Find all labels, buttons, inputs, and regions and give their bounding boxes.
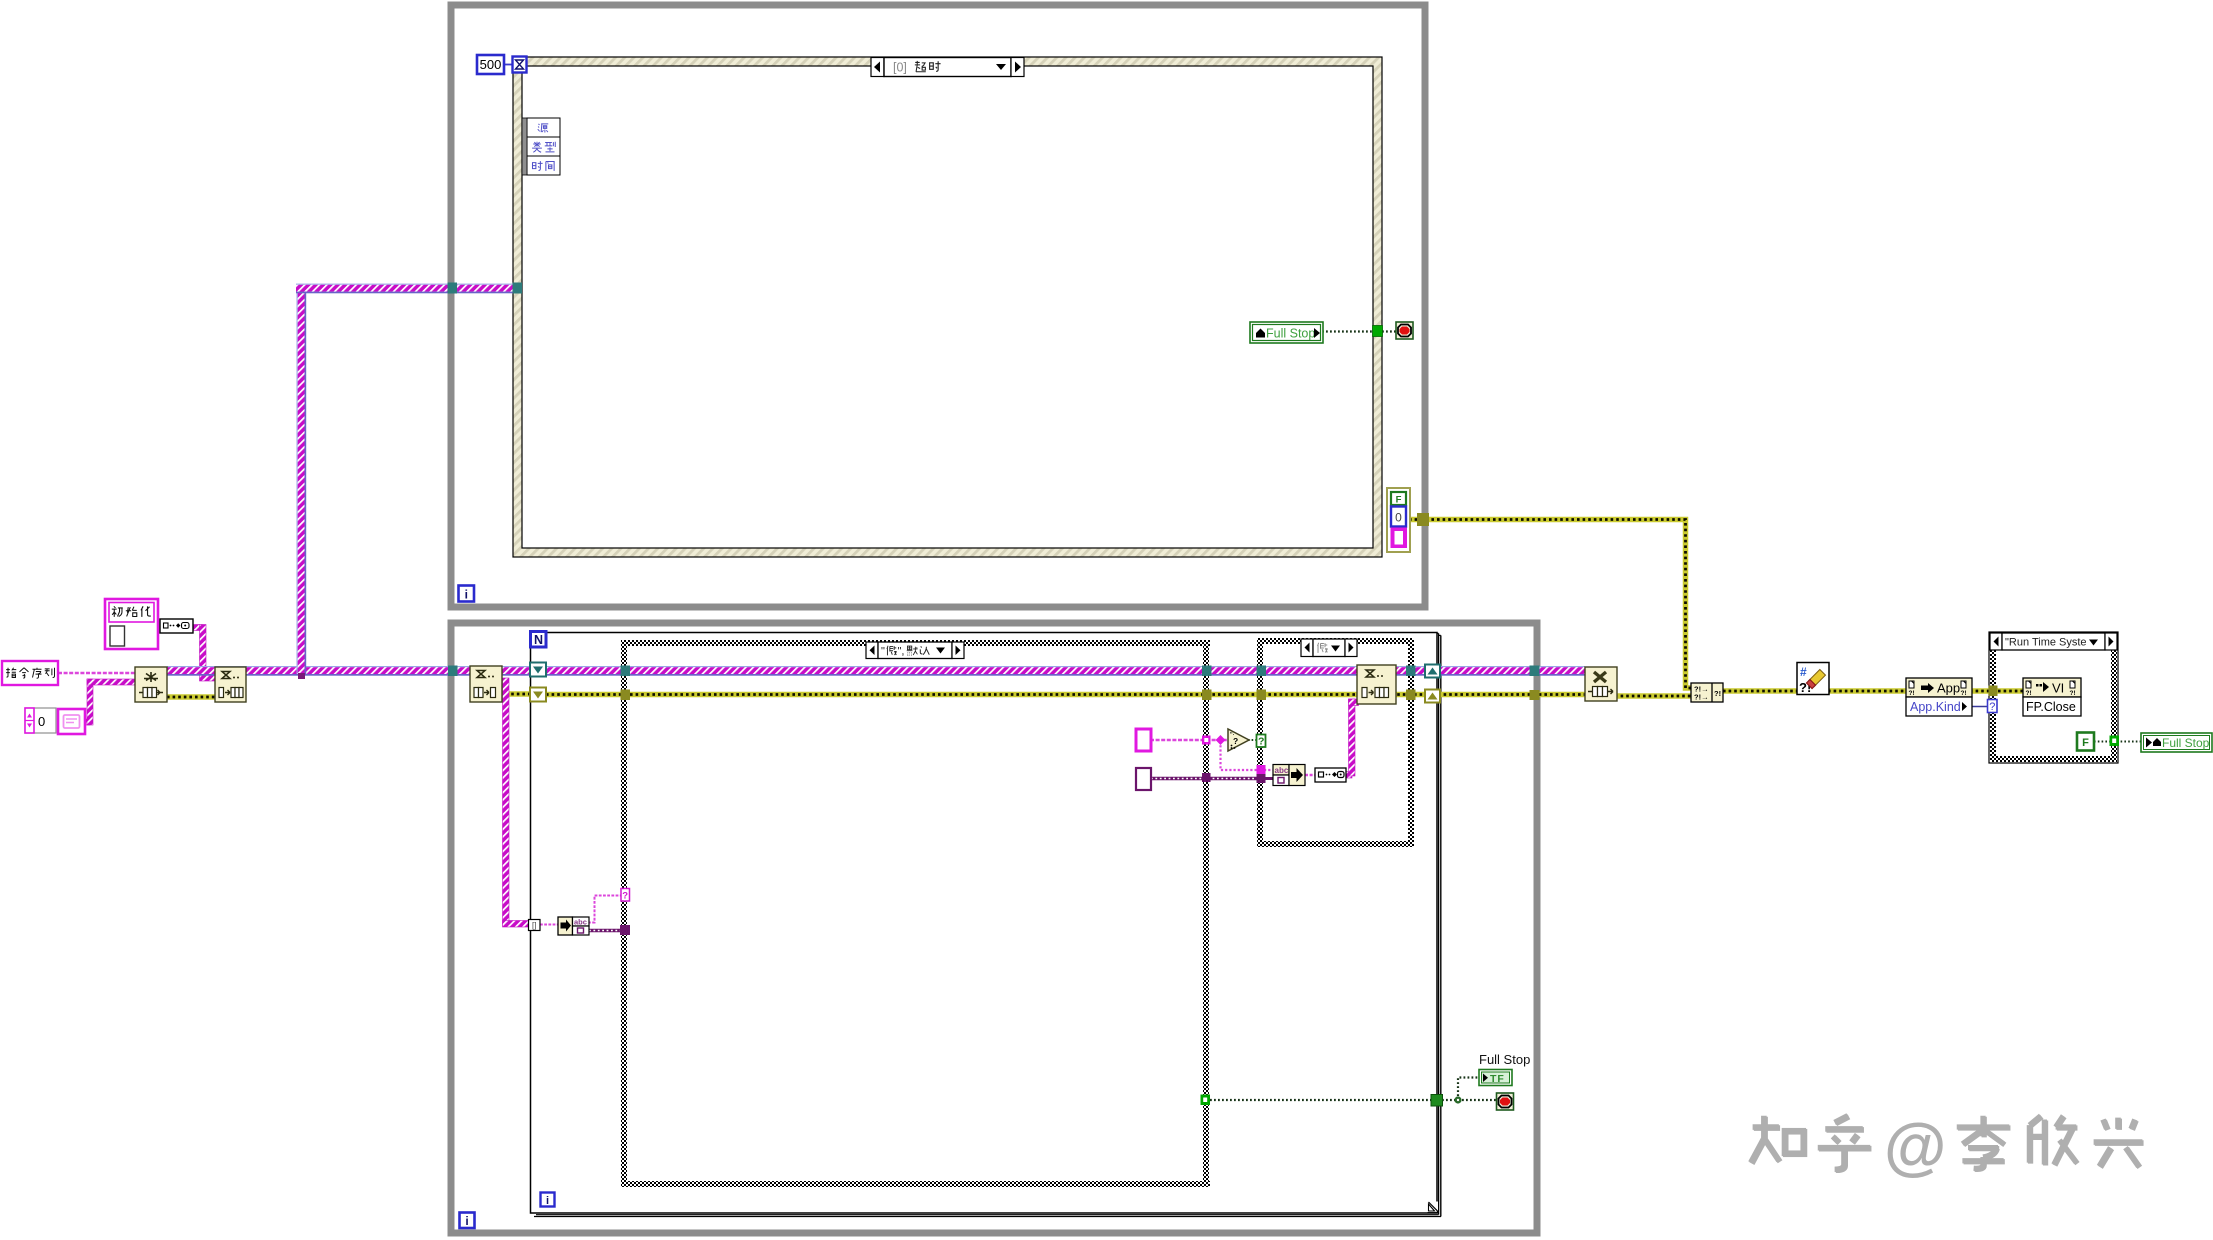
- selector terminal case C1 (? magenta): [621, 889, 630, 902]
- svg-text:App: App: [1937, 681, 1960, 696]
- case structure C3 border (Run Time System): [1989, 632, 2118, 763]
- svg-text:i: i: [465, 588, 468, 602]
- svg-text:?!: ?!: [1961, 690, 1967, 697]
- tunnel: queue wire into W1 left border: [448, 283, 458, 294]
- svg-text:App.Kind: App.Kind: [1910, 700, 1961, 714]
- event data node 源/类型/时间: [522, 118, 560, 175]
- index/array-to-string node (left, inside W2): [558, 917, 589, 935]
- wire: error cluster merge errors -> clear errors -> App -> case C3 -> VI: [1723, 688, 1800, 694]
- wire: error cluster for loop to release queue: [1438, 692, 1588, 698]
- wire: string 指令序列 to obtain queue: [58, 672, 137, 674]
- svg-text:F: F: [1396, 495, 1402, 506]
- enqueue element node (case C2): [1357, 665, 1396, 704]
- case structure C2 border (checkered): [1257, 638, 1414, 847]
- wire: built array up to enqueue node: [1346, 699, 1359, 778]
- tunnel: error into case C3 left border: [1989, 686, 1998, 697]
- svg-text:VI: VI: [2052, 681, 2064, 696]
- svg-text:0: 0: [1395, 511, 1402, 525]
- loop W2 stop condition terminal: [1497, 1093, 1514, 1110]
- selector terminal case C3 (? blue): [1988, 700, 1998, 714]
- cluster constant F/0/string (top right): [1387, 488, 1410, 552]
- iteration terminal i (W2): [460, 1213, 475, 1229]
- VI invoke node row2 FP.Close: [2023, 697, 2081, 716]
- wire: queue refnum vertical branch up at x~301: [297, 285, 307, 674]
- numeric 0 constant with increment arrows: [25, 708, 56, 733]
- tunnel: byte array into case C2 left (purple): [1257, 774, 1266, 783]
- numeric constant 500: [477, 55, 504, 74]
- svg-text:F: F: [2082, 737, 2089, 749]
- svg-text:TF: TF: [1490, 1073, 1505, 1085]
- watermark 知乎 @李欣兴: [1751, 1110, 2144, 1182]
- [] auto-index tunnel on for loop: [529, 920, 541, 931]
- tunnel: case C1 left teal: [621, 666, 631, 677]
- tunnel: purple const through case C1 right: [1202, 773, 1211, 782]
- case structure C1 border (checkered): [621, 640, 1210, 1187]
- merge errors node: [1691, 683, 1723, 702]
- wire: error cluster obtain->flush: [167, 694, 215, 700]
- bundle/append node A (right of 初始化): [160, 619, 193, 633]
- tunnel: boolean out of event structure right border (green): [1373, 326, 1383, 337]
- wire: boolean Full Stop ref to loop condition (top): [1322, 330, 1397, 332]
- VI invoke node row1: [2023, 678, 2081, 697]
- junction: string wire branch dot: [1216, 735, 1226, 745]
- tunnel: case C2 right olive: [1406, 690, 1416, 701]
- abc string-to-byte node (case C2): [1273, 765, 1289, 786]
- wire: dequeued element array down-left path to [] tunnel: [503, 678, 531, 927]
- selector terminal case C2 (? green): [1257, 735, 1266, 748]
- obtain queue node: [135, 667, 167, 702]
- tunnel: queue wire into W2 left border: [448, 666, 458, 677]
- svg-text:",: ",: [898, 646, 905, 658]
- wire: error cluster from top cluster constant down to merge errors: [1409, 520, 1691, 689]
- case C1 selector label "假", 默认: [866, 642, 964, 659]
- wire: error cluster inside for loop: [546, 692, 1426, 698]
- shift register left olive (for loop): [530, 688, 546, 702]
- svg-text:[0]: [0]: [893, 61, 907, 75]
- svg-text:[]: []: [532, 921, 536, 930]
- wire: boolean F constant to Full Stop indicator (case C3): [2094, 741, 2143, 743]
- svg-text:?: ?: [622, 891, 628, 902]
- svg-text:?!: ?!: [2026, 690, 2032, 697]
- TF Full Stop local variable indicator (bottom): [1479, 1070, 1512, 1086]
- case C3 selector label "Run Time Syste: [1990, 633, 2117, 650]
- wire: queue refnum main horizontal run (obtain queue to release queue): [167, 666, 1585, 676]
- tunnel: case C1 left olive: [621, 690, 631, 701]
- concatenate node (case C2): [1315, 768, 1346, 782]
- wire: byte array (dark purple dotted) index node to purple tunnel: [588, 929, 622, 932]
- F boolean constant (case C3): [2077, 733, 2094, 751]
- event timeout hourglass terminal: [513, 57, 527, 73]
- svg-text:?!→: ?!→: [1694, 693, 1709, 702]
- shift register right teal (for loop): [1425, 665, 1440, 678]
- tunnel: boolean out of case C1 right border (green, white center): [1201, 1095, 1211, 1106]
- Full Stop text label (bottom): [1479, 1052, 1530, 1067]
- flush queue node: [215, 667, 246, 702]
- wire: magenta dashes inside case C2 to abc node: [1264, 770, 1317, 779]
- svg-text:?: ?: [1258, 736, 1264, 748]
- event structure selector label [0] 超时: [871, 58, 1024, 77]
- Full Stop boolean reference (event): [1250, 322, 1323, 343]
- tunnel: string into case C2 left (magenta): [1257, 765, 1266, 774]
- svg-text:500: 500: [480, 57, 502, 72]
- svg-text:?!: ?!: [2070, 690, 2076, 697]
- Full Stop boolean indicator (far right): [2141, 733, 2212, 752]
- for loop dog-ear corner: [1428, 1202, 1439, 1214]
- svg-text:Full Stop: Full Stop: [1266, 327, 1315, 341]
- case C2 selector label 假: [1301, 639, 1357, 657]
- junction on queue wire: [298, 673, 305, 679]
- iteration terminal i (W1): [459, 586, 475, 602]
- wire: string element from [] tunnel to index node: [540, 924, 560, 926]
- queue options icon constant: [58, 709, 85, 734]
- wire: string constant to comparison and case C2 (magenta): [1150, 740, 1258, 770]
- wire: App.Kind to case C3 selector: [1970, 706, 1989, 708]
- svg-text:N: N: [534, 633, 543, 647]
- tunnel: case C2 left olive: [1257, 690, 1267, 701]
- tunnel: error wire out of W1 right border: [1417, 513, 1429, 526]
- tunnel: case C2 left teal: [1257, 666, 1267, 677]
- empty string comparison node (triangle): [1228, 729, 1249, 751]
- shift register right olive (for loop): [1425, 690, 1440, 703]
- tunnel: boolean out of case C3 right border (green): [2110, 736, 2120, 747]
- svg-text:#: #: [1800, 665, 1807, 679]
- svg-text:i: i: [465, 1214, 468, 1228]
- svg-text:i: i: [546, 1195, 549, 1207]
- tunnel: case C1 right teal: [1202, 666, 1212, 677]
- tunnel: queue wire out of W2 right border: [1530, 666, 1540, 677]
- tunnel: string const through case C1 right (pink, white center): [1202, 736, 1211, 745]
- svg-text:abc: abc: [574, 918, 587, 927]
- tunnel: boolean out of for loop right border (green solid): [1431, 1095, 1443, 1107]
- svg-text:Full Stop: Full Stop: [2162, 736, 2210, 750]
- App property node row1: [1906, 678, 1972, 697]
- loop W1 stop condition terminal: [1396, 322, 1413, 339]
- event structure border: [513, 57, 1382, 557]
- tunnel: case C2 right teal: [1406, 666, 1416, 677]
- wire: error cluster dequeue->shift register: [500, 691, 531, 697]
- 指令序列 string control label: [2, 661, 58, 685]
- string constant (magenta, case C1): [1136, 729, 1151, 751]
- svg-text:"Run Time Syste: "Run Time Syste: [2005, 637, 2087, 649]
- svg-text:0: 0: [38, 714, 45, 729]
- byte array constant (purple, case C1): [1136, 768, 1151, 790]
- clear errors node (#?! eraser): [1797, 663, 1829, 696]
- svg-text:?: ?: [1989, 701, 1995, 713]
- svg-text:FP.Close: FP.Close: [2026, 700, 2076, 714]
- wire: error cluster release queue to merge errors: [1615, 693, 1694, 699]
- release queue node (X): [1585, 667, 1617, 701]
- wire: 初始化 node to flush queue: [192, 625, 217, 682]
- svg-text:?!: ?!: [1909, 690, 1915, 697]
- build array node (case C2): [1289, 765, 1305, 786]
- tunnel: queue wire into event structure left border: [513, 283, 523, 294]
- svg-text:": ": [881, 646, 885, 658]
- svg-text:?: ?: [1233, 736, 1238, 746]
- junction: boolean wire dot: [1454, 1096, 1461, 1103]
- wire: string from index node to case selector ?: [588, 896, 622, 923]
- svg-text:abc: abc: [1275, 766, 1289, 775]
- while loop W2 (bottom): [451, 623, 1537, 1233]
- wire: boolean comparison result to case C2 selector: [1248, 739, 1258, 741]
- wire: boolean from case C1 to TF indicator and stop condition (bottom): [1210, 1078, 1498, 1101]
- svg-text:Full Stop: Full Stop: [1479, 1052, 1530, 1067]
- 初始化 boolean control: [105, 599, 158, 649]
- for loop border: [531, 633, 1442, 1217]
- for loop N terminal: [531, 632, 547, 648]
- wire: numeric 500 to timeout terminal: [504, 64, 514, 66]
- App property node row2 App.Kind: [1906, 697, 1972, 716]
- for loop iteration terminal i: [541, 1193, 555, 1208]
- svg-text:@: @: [1884, 1110, 1946, 1182]
- tunnel: case C1 right olive: [1202, 690, 1212, 701]
- wire: queue refnum top branch horizontal to event structure: [296, 284, 518, 294]
- wire: purple constant to case C2 (dark purple dotted): [1150, 777, 1258, 780]
- shift register left teal (for loop): [530, 663, 546, 677]
- wire: cluster 0 constant up to obtain queue: [84, 679, 137, 725]
- while loop W1 (top): [451, 5, 1425, 607]
- tunnel: error wire out of W2 right border: [1530, 690, 1540, 700]
- tunnel: byte array into case C1 left (purple solid): [620, 925, 630, 935]
- svg-text:?!: ?!: [1714, 689, 1721, 698]
- dequeue element node: [470, 666, 502, 702]
